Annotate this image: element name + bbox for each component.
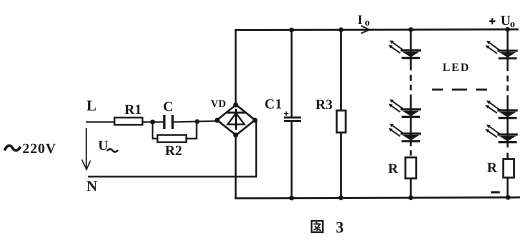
resistor R string2 bbox=[503, 159, 514, 178]
wire C to bridge bbox=[174, 121, 218, 122]
wire string2 dashes bbox=[507, 76, 509, 92]
svg-text:R3: R3 bbox=[316, 98, 333, 113]
wire string2 seg2 bbox=[507, 95, 509, 111]
node dot bridge bottom bbox=[233, 133, 238, 138]
label figure 3 bbox=[312, 220, 344, 237]
wire R1 to C bbox=[143, 121, 164, 123]
svg-text:R1: R1 bbox=[125, 103, 142, 118]
node dot bridge left bbox=[215, 118, 220, 123]
LED D2 string2 bbox=[485, 100, 517, 119]
node dot string1 top bbox=[408, 27, 413, 32]
node dot R3 top bbox=[339, 27, 344, 32]
arrow U down bbox=[82, 128, 91, 170]
node dot left of C bbox=[150, 120, 155, 125]
svg-text:o: o bbox=[365, 18, 370, 29]
wire string1 seg1 bbox=[410, 58, 412, 70]
resistor R string1 bbox=[405, 157, 416, 178]
wire string1 top lead bbox=[410, 30, 412, 51]
node dot C1 bottom bbox=[289, 196, 294, 201]
node dot right of C bbox=[195, 119, 200, 124]
svg-text:R: R bbox=[487, 161, 498, 176]
wire string2 seg1 bbox=[507, 58, 509, 71]
svg-text:o: o bbox=[510, 19, 515, 30]
arrow Io bbox=[361, 26, 369, 34]
wire bridge top lead bbox=[235, 30, 237, 105]
wire bridge bottom lead bbox=[235, 135, 237, 198]
wire top rail bbox=[235, 28, 519, 31]
svg-text:3: 3 bbox=[336, 220, 344, 237]
LED D1 string1 bbox=[389, 40, 422, 59]
svg-text:N: N bbox=[87, 179, 98, 195]
wire bottom rail bbox=[235, 196, 520, 199]
capacitor C bbox=[164, 115, 172, 129]
dashed row divider bbox=[432, 89, 487, 91]
svg-text:C1: C1 bbox=[265, 98, 283, 113]
LED D3 string1 bbox=[389, 124, 422, 143]
node dot string2 bottom bbox=[506, 195, 511, 200]
node dot string1 bottom bbox=[408, 195, 413, 200]
svg-text:C: C bbox=[163, 100, 173, 115]
label U~ bbox=[98, 139, 118, 154]
svg-text:VD: VD bbox=[211, 99, 227, 110]
wire string2 dash above R bbox=[507, 153, 509, 158]
label ~220V bbox=[5, 142, 57, 157]
wire R2 branch left bbox=[153, 122, 158, 139]
svg-text:U: U bbox=[98, 139, 108, 154]
svg-text:I: I bbox=[358, 12, 363, 27]
wire string1 seg3 bbox=[410, 117, 412, 134]
svg-text:R: R bbox=[388, 162, 399, 177]
wire string1 seg2 bbox=[410, 95, 412, 111]
bridge rectifier VD bbox=[217, 105, 255, 135]
node dot C1 top bbox=[289, 28, 294, 33]
resistor R2 bbox=[158, 135, 187, 142]
wire string2 seg3 bbox=[507, 118, 509, 135]
node dot bridge top bbox=[233, 103, 238, 108]
wire string2 top lead bbox=[507, 29, 509, 51]
wire R2 branch right bbox=[186, 122, 196, 139]
wire L lead bbox=[86, 121, 115, 123]
LED D3 string2 bbox=[485, 125, 517, 144]
svg-text:R2: R2 bbox=[165, 144, 182, 159]
resistor R3 bbox=[337, 30, 346, 198]
node dot R3 bottom bbox=[339, 195, 344, 200]
wire string1 bottom lead bbox=[410, 178, 412, 198]
resistor R1 bbox=[115, 118, 143, 125]
svg-text:LED: LED bbox=[443, 62, 471, 74]
wire string2 bottom lead bbox=[507, 178, 509, 198]
LED D2 string1 bbox=[389, 99, 422, 118]
wire string2 seg4 bbox=[507, 142, 509, 147]
svg-text:L: L bbox=[87, 99, 97, 115]
label Io bbox=[358, 12, 370, 29]
wire N bbox=[88, 121, 256, 177]
LED D1 string2 bbox=[485, 41, 517, 60]
wire string1 dash above R bbox=[410, 150, 412, 155]
wire string1 seg4 bbox=[410, 141, 412, 146]
capacitor C1 bbox=[284, 30, 301, 198]
label minus bbox=[491, 191, 500, 193]
svg-text:220V: 220V bbox=[23, 142, 57, 157]
label + Uo bbox=[489, 14, 515, 30]
node dot string2 top bbox=[505, 27, 510, 32]
node dot bridge right bbox=[253, 118, 258, 123]
wire string1 dashes bbox=[410, 75, 412, 90]
